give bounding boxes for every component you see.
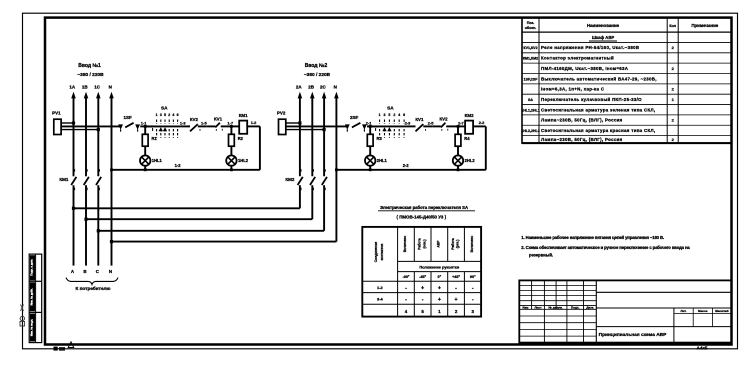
svg-text:+: + [438,285,441,291]
svg-text:2SF: 2SF [350,115,359,120]
svg-text:4: 4 [398,113,400,117]
svg-text:1-2: 1-2 [377,285,384,290]
svg-text:6: 6 [403,113,405,117]
svg-text:3: 3 [384,113,386,117]
svg-text:Ввод №1: Ввод №1 [78,63,101,69]
svg-text:Светосигнальная арматура красн: Светосигнальная арматура красная типа СК… [541,128,655,133]
svg-text:Кол: Кол [669,24,676,28]
svg-text:-90°: -90° [402,275,409,279]
svg-text:Наименование: Наименование [587,23,620,28]
svg-text:Контактор электромагнитный: Контактор электромагнитный [541,56,614,61]
svg-text:R2: R2 [238,136,244,141]
svg-text:Лампа~230В, 50Гц, (ВЛГ), Росси: Лампа~230В, 50Гц, (ВЛГ), Россия [541,118,623,123]
svg-text:2С: 2С [320,84,327,89]
svg-text:R3: R3 [377,136,383,141]
svg-text:Инв. № подл.: Инв. № подл. [30,319,34,336]
svg-text:КV2: КV2 [190,117,199,122]
svg-text:Лит.: Лит. [681,309,687,313]
svg-text:Работа: Работа [451,238,455,250]
svg-text:Инв. № дубл.: Инв. № дубл. [30,288,34,305]
svg-text:Изм: Изм [523,305,530,309]
svg-text:+45°: +45° [452,275,460,279]
svg-text:~380 / 220В: ~380 / 220В [304,72,331,78]
svg-text:1-5: 1-5 [201,121,207,126]
svg-text:АВР: АВР [436,240,440,248]
svg-text:-: - [472,297,474,303]
svg-text:Подп. и дата: Подп. и дата [30,259,34,276]
svg-text:Светосигнальная арматура зелен: Светосигнальная арматура зеленая типа СК… [541,107,655,112]
svg-text:Выключатель автоматический ВА4: Выключатель автоматический ВА47-29, ~230… [541,76,657,81]
svg-text:1: 1 [379,113,381,117]
svg-text:2: 2 [168,113,170,117]
svg-text:Положение рукоятки: Положение рукоятки [419,264,460,269]
svg-text:2-3: 2-3 [405,120,411,125]
svg-text:КV1: КV1 [214,117,223,122]
svg-text:R4: R4 [464,136,470,141]
svg-text:2: 2 [393,113,395,117]
svg-text:1-2: 1-2 [251,120,257,125]
svg-text:3: 3 [160,113,162,117]
svg-text:-: - [472,285,474,291]
svg-text:1HL2: 1HL2 [238,158,249,163]
svg-text:-: - [405,297,407,303]
svg-text:~380 / 220В: ~380 / 220В [77,72,104,78]
svg-text:SA: SA [528,98,533,102]
svg-text:+: + [421,285,424,291]
svg-text:-: - [405,285,407,291]
svg-text:( ПМОВ-145-Д40/50 У3 ): ( ПМОВ-145-Д40/50 У3 ) [397,215,447,220]
svg-text:2-5: 2-5 [428,121,434,126]
svg-text:PV1: PV1 [52,111,61,116]
svg-text:-: - [422,297,424,303]
svg-text:Масштаб: Масштаб [715,309,729,313]
svg-text:(рез.): (рез.) [456,240,460,249]
svg-text:КV2: КV2 [439,117,448,122]
svg-text:Электрическая работа переключа: Электрическая работа переключателя SA [380,205,468,210]
svg-text:Лист: Лист [534,305,542,309]
svg-text:Поз.: Поз. [527,21,535,25]
svg-text:90°: 90° [470,275,476,279]
svg-text:-: - [455,285,457,291]
svg-text:контактов: контактов [380,244,384,261]
svg-text:Подп.: Подп. [571,305,580,309]
svg-text:(осн.): (осн.) [422,240,426,249]
svg-text:N: N [334,84,337,89]
svg-text:Примечание: Примечание [691,23,718,28]
svg-text:1А: 1А [69,84,76,89]
svg-text:1-1: 1-1 [141,120,147,125]
svg-text:Дата: Дата [586,305,593,309]
svg-text:А4х5: А4х5 [697,345,708,350]
svg-text:1HL1,2HL1: 1HL1,2HL1 [521,108,540,112]
svg-text:Реле напряжения РН-54/160, Uка: Реле напряжения РН-54/160, Uкат.~380В [541,45,639,50]
svg-text:1-7: 1-7 [227,121,233,126]
svg-text:1SF,2SF: 1SF,2SF [524,77,539,81]
svg-text:Iном=6,3А, 1п+N, хар-ка С: Iном=6,3А, 1п+N, хар-ка С [541,87,605,92]
svg-text:3-4: 3-4 [377,297,384,302]
svg-text:1. Наименьшее рабочее напряжен: 1. Наименьшее рабочее напряжение питания… [521,235,664,240]
svg-text:2-2: 2-2 [479,120,485,125]
svg-text:КМ1,КМ2: КМ1,КМ2 [523,57,538,61]
svg-text:ПМЛ-4160ДМ, Uкат.~380В, Iном=6: ПМЛ-4160ДМ, Uкат.~380В, Iном=63А [541,66,629,71]
svg-text:Лампа~230В, 50Гц, (ВЛГ), Росси: Лампа~230В, 50Гц, (ВЛГ), Россия [541,137,623,142]
svg-text:1С: 1С [94,84,101,89]
svg-text:Включено: Включено [470,236,474,253]
svg-text:Переключатель кулачковый ПКП-2: Переключатель кулачковый ПКП-25-33/О [541,97,642,102]
svg-text:2-7: 2-7 [458,121,464,126]
svg-text:2HL1: 2HL1 [377,158,388,163]
svg-text:Ввод №2: Ввод №2 [305,63,328,69]
svg-text:N: N [109,84,112,89]
svg-text:КМ2: КМ2 [465,113,474,118]
svg-text:Включено: Включено [403,236,407,253]
svg-text:4: 4 [172,113,174,117]
svg-text:КМ1: КМ1 [59,177,68,182]
svg-text:1SF: 1SF [123,115,132,120]
svg-text:КV1,КV2: КV1,КV2 [523,46,537,50]
svg-text:2. Схема обеспечивает автомати: 2. Схема обеспечивает автоматическое и р… [521,245,690,250]
svg-text:N: N [109,269,112,274]
svg-text:5: 5 [388,113,390,117]
svg-text:R1: R1 [152,136,158,141]
svg-text:2А: 2А [296,84,303,89]
svg-text:SA: SA [161,105,168,110]
svg-text:Работа: Работа [417,238,421,250]
svg-text:2HL2: 2HL2 [465,158,476,163]
svg-text:-45°: -45° [419,275,426,279]
svg-text:1HL2,2HL2: 1HL2,2HL2 [521,129,540,133]
svg-text:+: + [438,297,441,303]
svg-text:обозн.: обозн. [525,26,537,30]
svg-text:1В: 1В [82,84,89,89]
svg-text:1-2: 1-2 [175,163,182,168]
svg-text:резервный.: резервный. [529,252,553,257]
svg-text:1HL1: 1HL1 [152,158,163,163]
svg-text:2В: 2В [308,84,315,89]
svg-text:1: 1 [156,113,158,117]
svg-text:В: В [83,269,86,274]
svg-text:PV2: PV2 [277,111,286,116]
svg-text:№ докум.: № докум. [549,305,563,309]
svg-text:КМ1: КМ1 [239,113,248,118]
svg-text:Масса: Масса [698,309,708,313]
svg-text:0°: 0° [438,275,442,279]
svg-text:1-3: 1-3 [180,120,186,125]
svg-text:Соединение: Соединение [374,242,378,263]
svg-text:КМ2: КМ2 [285,177,294,182]
svg-text:+: + [455,297,458,303]
svg-text:Принципиальная схема АВР: Принципиальная схема АВР [599,332,668,338]
svg-text:К потребителю: К потребителю [75,285,110,291]
svg-text:КV1: КV1 [415,117,424,122]
svg-text:2-1: 2-1 [366,120,372,125]
svg-text:5: 5 [164,113,166,117]
svg-text:Шкаф АВР: Шкаф АВР [592,35,615,40]
svg-text:2-2: 2-2 [403,163,410,168]
svg-text:SA: SA [387,105,394,110]
svg-text:6: 6 [177,113,179,117]
